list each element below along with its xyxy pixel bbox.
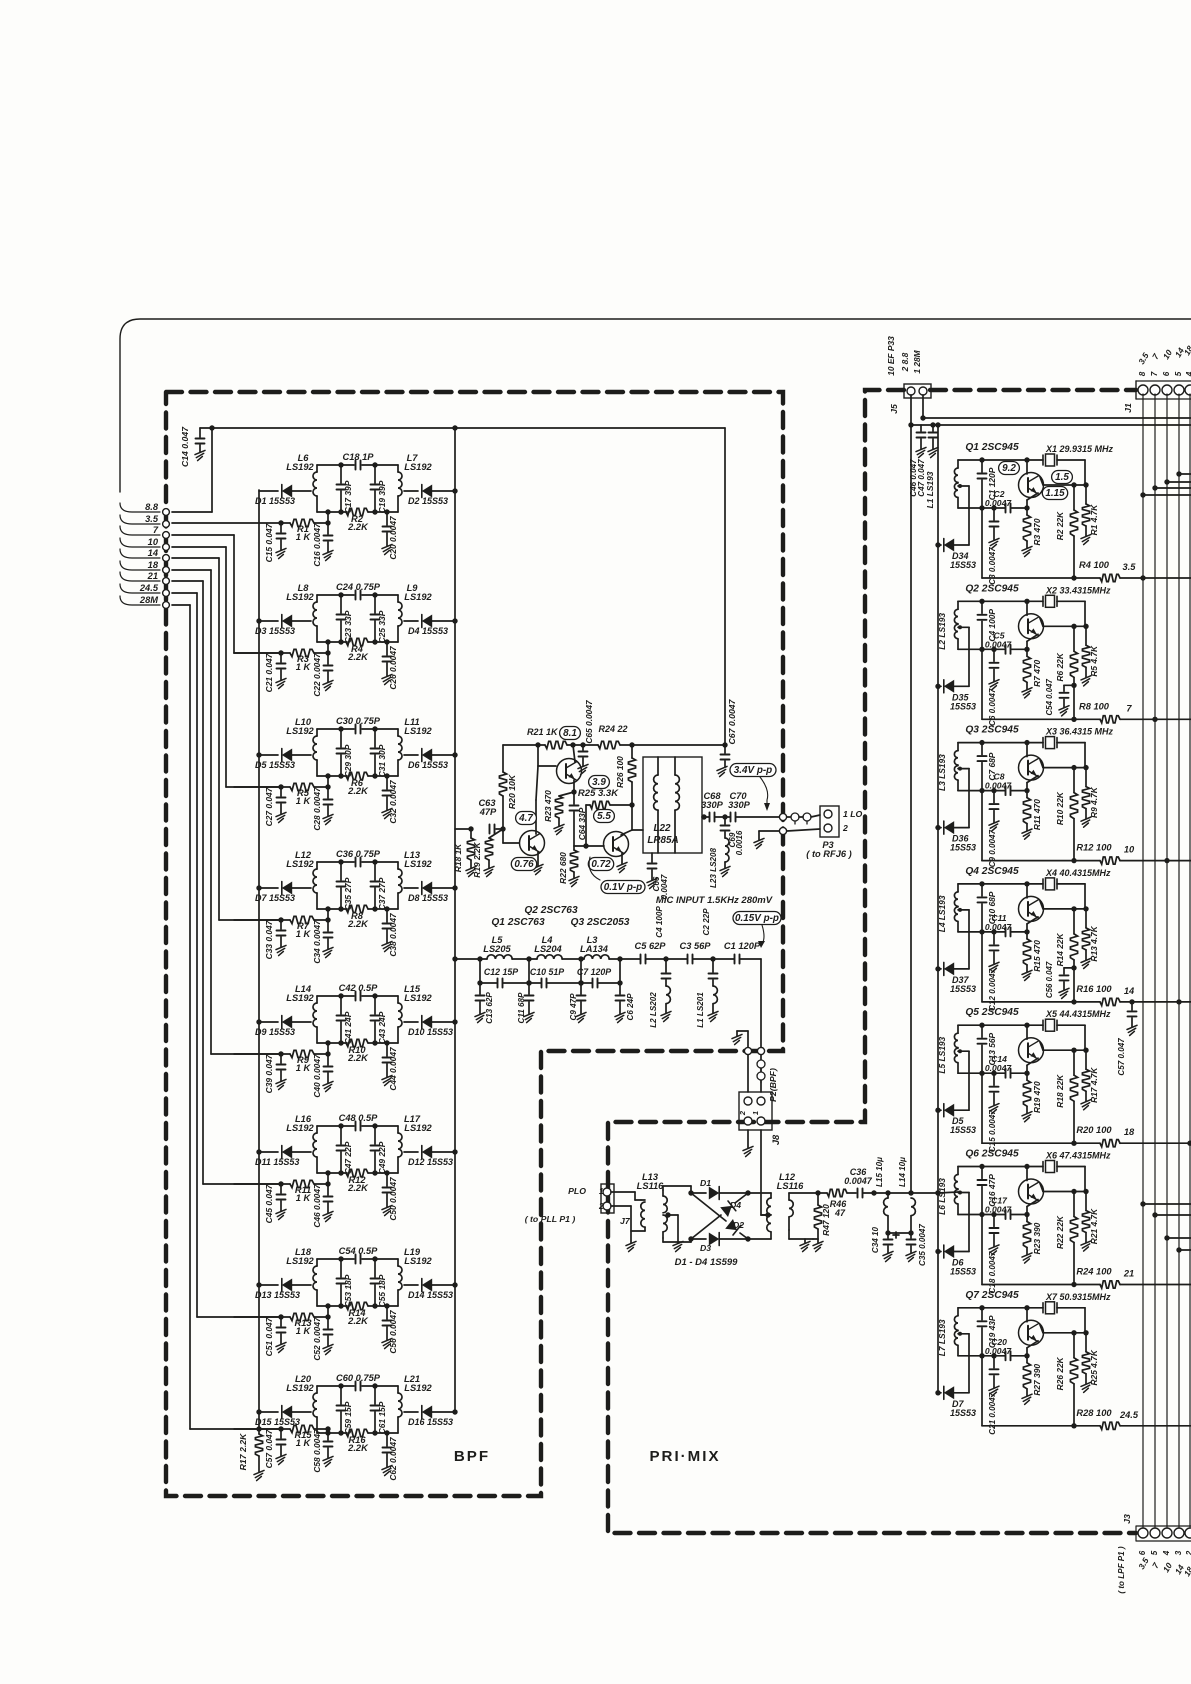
capacitor C4 100P: [978, 601, 998, 649]
BPF unit dashed enclosure: [166, 392, 783, 1496]
svg-text:R28 100: R28 100: [1076, 1408, 1112, 1418]
svg-text:L6 LS193: L6 LS193: [937, 1178, 947, 1215]
svg-text:C52 0.0047: C52 0.0047: [312, 1317, 322, 1361]
wire 8.8 band to C14 node: [172, 425, 215, 512]
wire row7 bottom rail: [317, 1303, 398, 1308]
capacitor C56 0.0047: [382, 1303, 398, 1353]
svg-text:R19 470: R19 470: [1032, 1081, 1042, 1113]
wire row3 bottom rail: [317, 773, 398, 778]
resistor R12 2.2K: [346, 1169, 369, 1193]
svg-text:C57 0.047: C57 0.047: [1117, 1038, 1126, 1076]
svg-text:15S53: 15S53: [950, 701, 976, 711]
svg-text:D2 15S53: D2 15S53: [408, 496, 448, 506]
resistor R24 100: [1076, 1267, 1134, 1289]
diode D35 15S53: [935, 625, 976, 711]
wire stage6 output row: [982, 1215, 1191, 1285]
capacitor C21 0.0047: [988, 1356, 999, 1435]
svg-text:L3 LS193: L3 LS193: [937, 754, 947, 791]
wire row4 top rail: [317, 859, 398, 864]
resistor R17 4.7K: [1081, 1050, 1099, 1110]
connector J3: [1117, 1514, 1191, 1594]
svg-text:0.0047: 0.0047: [985, 639, 1013, 649]
value bubble 3.9: [589, 776, 610, 789]
svg-text:PRI·MIX: PRI·MIX: [649, 1448, 720, 1465]
connector contact pair: [791, 813, 820, 824]
capacitor C70 330P: [715, 791, 780, 822]
svg-text:Q3 2SC2053: Q3 2SC2053: [571, 917, 630, 928]
svg-text:C45 0.047: C45 0.047: [264, 1184, 274, 1223]
capacitor C38 0.0047: [382, 906, 398, 956]
svg-text:2: 2: [738, 1110, 747, 1116]
svg-text:C32 0.0047: C32 0.0047: [388, 780, 398, 824]
inductor L18 LS192: [286, 1247, 317, 1306]
capacitor C25 33P: [371, 595, 388, 643]
svg-text:1 K: 1 K: [296, 1063, 312, 1073]
svg-text:J5: J5: [889, 404, 899, 414]
svg-text:C51 0.047: C51 0.047: [264, 1317, 274, 1356]
capacitor C57 0.047: [264, 1429, 286, 1468]
svg-text:C38 0.0047: C38 0.0047: [388, 913, 398, 957]
svg-text:C31 30P: C31 30P: [377, 744, 387, 777]
svg-text:C34 0.0047: C34 0.0047: [312, 920, 322, 964]
oscillator stage Q3 2SC945 labels: [965, 725, 1113, 737]
resistor R9 4.7K: [1081, 768, 1099, 828]
resistor R3 470: [1022, 508, 1042, 557]
wire J8 pin2 ground: [743, 1130, 753, 1157]
capacitor C16 47P: [978, 1167, 998, 1215]
svg-text:C18 0.0047: C18 0.0047: [988, 1251, 997, 1293]
capacitor C68 330P: [701, 791, 724, 822]
resistor R14 22K: [1055, 909, 1078, 1005]
oscillator stage Q7 2SC945 labels: [965, 1290, 1111, 1302]
wire row1 top rail: [317, 462, 398, 467]
svg-text:LS192: LS192: [286, 726, 314, 736]
svg-text:1.15: 1.15: [1045, 488, 1065, 499]
node bus 18: [1187, 1141, 1191, 1146]
svg-text:LS192: LS192: [404, 1123, 432, 1133]
svg-text:7: 7: [1150, 371, 1159, 376]
svg-text:R24 22: R24 22: [598, 724, 627, 734]
svg-text:LS204: LS204: [534, 944, 562, 954]
resistor R20 10K: [499, 745, 517, 829]
resistor R22 22K: [1055, 1192, 1078, 1288]
wire common output line top: [212, 427, 725, 429]
svg-text:C21 0.047: C21 0.047: [264, 653, 274, 692]
resistor R9 1K: [290, 1050, 314, 1073]
wire 21 band to row 6: [172, 581, 281, 1184]
resistor R20 100: [1076, 1125, 1135, 1147]
svg-text:C22 0.0047: C22 0.0047: [312, 653, 322, 697]
oscillator stage Q5 2SC945 labels: [965, 1007, 1111, 1019]
value bubble 8.1: [560, 727, 581, 740]
svg-text:J7: J7: [620, 1216, 631, 1226]
svg-text:0.0047: 0.0047: [844, 1176, 873, 1186]
capacitor C7 120P: [577, 959, 620, 988]
svg-text:R21 4.7K: R21 4.7K: [1089, 1208, 1099, 1244]
svg-text:C12 0.0047: C12 0.0047: [988, 968, 997, 1010]
capacitor C64 33P: [570, 792, 588, 846]
oscillator stage Q6 2SC945 labels: [965, 1149, 1111, 1161]
svg-text:LS192: LS192: [404, 1256, 432, 1266]
svg-text:D4 15S53: D4 15S53: [408, 626, 448, 636]
svg-text:R2 22K: R2 22K: [1055, 511, 1065, 540]
svg-text:C44 0.0047: C44 0.0047: [388, 1047, 398, 1091]
svg-text:D3 15S53: D3 15S53: [255, 626, 295, 636]
wire mixer output to L6 tap: [938, 1192, 958, 1193]
transistor Q6: [1019, 1167, 1089, 1215]
svg-text:0.15V p-p: 0.15V p-p: [735, 913, 779, 924]
svg-text:L2 LS193: L2 LS193: [937, 613, 947, 650]
svg-text:0.0047: 0.0047: [985, 1063, 1013, 1073]
wire bus stubs to edge middle: [1140, 1201, 1191, 1252]
transformer L22 LR85A: [643, 757, 702, 853]
terminal 24.5: [120, 583, 169, 596]
svg-text:C30 0.75P: C30 0.75P: [336, 716, 381, 726]
svg-text:Q4 2SC945: Q4 2SC945: [965, 866, 1019, 877]
svg-text:C10 51P: C10 51P: [530, 967, 564, 977]
svg-text:1 K: 1 K: [296, 1193, 312, 1203]
transistor Q7: [1019, 1308, 1089, 1356]
svg-text:C56 0.047: C56 0.047: [1045, 961, 1054, 998]
terminal 28M: [120, 595, 169, 608]
capacitor C6 24P: [615, 980, 635, 1022]
diode D2 15S53: [404, 485, 458, 507]
svg-text:4: 4: [1162, 1550, 1171, 1556]
inductor L6 LS192: [286, 453, 317, 512]
diode D15 15S53: [255, 1406, 311, 1428]
svg-text:R5 4.7K: R5 4.7K: [1089, 645, 1099, 677]
diode D8 15S53: [404, 882, 458, 904]
capacitor C54 0.5P: [339, 1246, 379, 1264]
capacitor C20 0.0047: [985, 1337, 1013, 1361]
capacitor C20 0.0047: [382, 509, 398, 559]
svg-text:C6 24P: C6 24P: [626, 993, 635, 1021]
svg-text:15S53: 15S53: [950, 1408, 976, 1418]
svg-text:C14 0.047: C14 0.047: [180, 426, 190, 467]
capacitor C2 0.0047: [985, 489, 1013, 513]
svg-text:8.1: 8.1: [563, 728, 577, 739]
svg-text:330P: 330P: [701, 800, 724, 810]
svg-text:P2(BPF): P2(BPF): [768, 1068, 778, 1102]
terminal 8.8: [120, 502, 169, 515]
capacitor C17 39P: [337, 465, 354, 513]
resistor R23 470: [543, 789, 577, 834]
capacitor C5 0.0047: [985, 630, 1013, 654]
capacitor C18 0.0047: [988, 1215, 999, 1294]
transistor Q1: [1019, 460, 1089, 508]
diode D10 15S53: [404, 1016, 458, 1038]
terminal 14: [120, 548, 169, 561]
inductor L10 LS192: [286, 717, 317, 776]
svg-text:1 28M: 1 28M: [912, 349, 922, 373]
capacitor C56 0.047: [1045, 961, 1077, 998]
capacitor C65 0.0047: [578, 700, 594, 775]
capacitor C61 15P: [371, 1386, 388, 1434]
capacitor C10 51P: [526, 959, 581, 988]
svg-text:C35 0.0047: C35 0.0047: [918, 1224, 927, 1266]
wire stage3 output row: [982, 791, 1191, 861]
svg-text:3: 3: [1174, 1550, 1183, 1555]
resistor R10 2.2K: [346, 1039, 369, 1063]
svg-text:C28 0.0047: C28 0.0047: [312, 787, 322, 831]
capacitor C44 0.0047: [382, 1040, 398, 1090]
capacitor C3 56P: [666, 941, 713, 964]
transistor Q3: [1019, 743, 1089, 791]
capacitor C60 0.75P: [336, 1373, 381, 1391]
svg-text:LS192: LS192: [404, 726, 432, 736]
svg-text:J1: J1: [1123, 403, 1133, 413]
svg-text:15S53: 15S53: [950, 984, 976, 994]
capacitor C10 68P: [978, 884, 998, 932]
node BPF box output: [779, 813, 791, 820]
resistor R13 1K: [290, 1313, 314, 1336]
inductor L20 LS192: [286, 1374, 317, 1433]
node bus 7: [1152, 717, 1157, 722]
wire stage2 output row: [982, 649, 1191, 719]
capacitor C15 0.0047: [988, 1073, 999, 1152]
svg-text:C24 0.75P: C24 0.75P: [336, 582, 381, 592]
diode D37 15S53: [935, 908, 976, 994]
wire stage6 top rail: [958, 1164, 1043, 1169]
svg-text:R22 680: R22 680: [558, 852, 568, 884]
svg-text:0.72: 0.72: [591, 859, 611, 870]
wire row2 top rail: [317, 592, 398, 597]
capacitor C22 0.0047: [312, 653, 333, 697]
oscillator stage Q4 2SC945 labels: [965, 866, 1111, 878]
capacitor C58 0.0047: [312, 1429, 333, 1473]
crystal X6: [1043, 1161, 1085, 1192]
wire J7 pin1 to L13: [611, 1192, 641, 1200]
crystal X2: [1043, 595, 1085, 626]
svg-text:2.2K: 2.2K: [347, 522, 369, 532]
resistor R4 100: [1079, 560, 1136, 582]
svg-text:28M: 28M: [139, 595, 158, 605]
wire L13 secondary taps: [663, 1186, 694, 1252]
wire row1 bottom rail: [317, 509, 398, 514]
svg-text:X5 44.4315MHz: X5 44.4315MHz: [1045, 1009, 1111, 1019]
capacitor C31 30P: [371, 729, 388, 777]
svg-text:LS192: LS192: [286, 1383, 314, 1393]
wire row6 top rail: [317, 1123, 398, 1128]
capacitor C1 120P: [713, 941, 761, 964]
inductor L11 LS192: [398, 717, 433, 776]
svg-text:D12 15S53: D12 15S53: [408, 1157, 453, 1167]
svg-text:L4 LS193: L4 LS193: [937, 895, 947, 932]
capacitor C28 0.0047: [312, 787, 333, 831]
svg-text:D11 15S53: D11 15S53: [255, 1157, 299, 1167]
resistor R18 22K: [1055, 1050, 1078, 1146]
svg-text:D9 15S53: D9 15S53: [255, 1027, 295, 1037]
inductor L23 LS208: [709, 838, 730, 888]
resistor R6 2.2K: [346, 772, 369, 796]
wire J5 pin2 8.8 rail: [908, 395, 1191, 1193]
value bubble 0.15Vp-p: [733, 912, 781, 949]
resistor R26 22K: [1055, 1333, 1078, 1429]
svg-text:21: 21: [147, 571, 158, 581]
svg-text:LS192: LS192: [286, 993, 314, 1003]
wire row7 control line: [234, 1306, 331, 1320]
capacitor C32 0.0047: [382, 773, 398, 823]
node bus 3.5: [1140, 575, 1145, 580]
resistor R19 2.2K: [472, 829, 503, 878]
svg-text:LS192: LS192: [404, 993, 432, 1003]
connector P2 contacts: [748, 1055, 778, 1102]
wire J8 pin1 to mixer: [761, 1130, 768, 1215]
svg-text:C58 0.0047: C58 0.0047: [312, 1429, 322, 1473]
svg-text:R26 100: R26 100: [615, 756, 625, 788]
svg-text:Q3 2SC945: Q3 2SC945: [965, 725, 1019, 736]
capacitor C1 120P: [978, 460, 998, 508]
oscillator stage Q2 2SC945 labels: [965, 583, 1111, 595]
svg-text:D1 15S53: D1 15S53: [255, 496, 295, 506]
capacitor C3 0.0047: [988, 508, 999, 585]
BPF label: [454, 1448, 490, 1465]
svg-text:LS192: LS192: [404, 859, 432, 869]
svg-text:1 K: 1 K: [296, 662, 312, 672]
wire 7 band to row 2: [172, 535, 281, 653]
svg-text:C46 0.0047: C46 0.0047: [312, 1184, 322, 1228]
connector J7 (PLO): [525, 1184, 631, 1226]
wire output return: [754, 827, 820, 848]
svg-text:C65 0.0047: C65 0.0047: [584, 700, 594, 744]
svg-text:2 8.8: 2 8.8: [900, 352, 910, 372]
diode D16 15S53: [404, 1406, 458, 1428]
diode D3 15S53: [255, 615, 311, 637]
capacitor C34 10 electrolytic: [871, 1226, 899, 1261]
svg-text:D7 15S53: D7 15S53: [255, 893, 295, 903]
capacitor C54 0.047: [1045, 678, 1077, 715]
crystal X1: [1043, 454, 1085, 485]
svg-text:C61 15P: C61 15P: [377, 1401, 387, 1434]
resistor R26 100: [615, 745, 636, 805]
value bubble 4.7: [516, 812, 537, 825]
crystal X4: [1043, 878, 1085, 909]
capacitor C16 0.0047: [312, 523, 333, 567]
svg-text:X4 40.4315MHz: X4 40.4315MHz: [1045, 868, 1111, 878]
wire row1 control line: [172, 512, 331, 526]
svg-text:C5 62P: C5 62P: [634, 941, 666, 951]
inductor L9 LS192: [398, 583, 433, 642]
svg-text:L14 10μ: L14 10μ: [898, 1157, 907, 1187]
resistor R16 100: [1076, 984, 1135, 1006]
svg-text:J3: J3: [1122, 1514, 1132, 1524]
capacitor C26 0.0047: [382, 639, 398, 689]
capacitor C33 0.047: [264, 920, 286, 959]
svg-text:R8 100: R8 100: [1079, 701, 1110, 711]
svg-text:R27 390: R27 390: [1032, 1364, 1042, 1396]
capacitor C29 30P: [337, 729, 354, 777]
resistor R24 22: [598, 724, 628, 749]
resistor R2 2.2K: [346, 508, 369, 532]
svg-text:C7 120P: C7 120P: [577, 967, 611, 977]
svg-text:R26 22K: R26 22K: [1055, 1356, 1065, 1390]
svg-text:2: 2: [598, 1202, 604, 1211]
svg-text:R11 470: R11 470: [1032, 799, 1042, 830]
inductor L12 LS192: [286, 850, 317, 909]
svg-text:4: 4: [1185, 371, 1191, 377]
svg-text:1 K: 1 K: [296, 1438, 312, 1448]
wire row8 top rail: [317, 1383, 398, 1388]
svg-text:C15 0.047: C15 0.047: [264, 523, 274, 562]
transformer L13 LS116: [631, 1172, 667, 1238]
svg-text:1: 1: [751, 1111, 760, 1115]
capacitor C62 0.0047: [382, 1430, 398, 1480]
svg-text:47P: 47P: [479, 807, 497, 817]
resistor R8 100: [1079, 701, 1132, 723]
svg-text:C57 0.047: C57 0.047: [264, 1429, 274, 1468]
svg-text:R3 470: R3 470: [1032, 518, 1042, 545]
connector P2 pins on BPF edge: [744, 1047, 764, 1054]
svg-text:R25 4.7K: R25 4.7K: [1089, 1349, 1099, 1385]
svg-text:Q7 2SC945: Q7 2SC945: [965, 1290, 1019, 1301]
inductor L1 LS201: [696, 980, 718, 1028]
resistor R11 1K: [290, 1180, 314, 1203]
wire LPF chain: [452, 956, 715, 961]
inductor L4 LS193: [937, 884, 958, 932]
svg-text:C6 0.0047: C6 0.0047: [988, 688, 997, 726]
svg-text:1: 1: [599, 1187, 604, 1196]
resistor R28 100: [1076, 1408, 1138, 1430]
terminal 18: [120, 560, 169, 573]
svg-text:R12 100: R12 100: [1076, 843, 1112, 853]
capacitor C43 24P: [371, 996, 388, 1044]
svg-text:R15 470: R15 470: [1032, 940, 1042, 972]
inductor L4 LS204: [529, 935, 581, 959]
value bubble 0.72: [588, 858, 613, 871]
capacitor C23 33P: [337, 595, 354, 643]
wire J7 pin2 ground: [611, 1206, 636, 1252]
svg-text:L15 10μ: L15 10μ: [875, 1157, 884, 1187]
resistor R22 680: [558, 846, 579, 887]
inductor L14 LS192: [286, 984, 317, 1043]
svg-text:14: 14: [148, 548, 159, 558]
transistor Q3: [574, 805, 643, 873]
svg-text:L22: L22: [653, 823, 671, 834]
resistor R5 1K: [290, 783, 314, 806]
connector J1: [1123, 344, 1191, 413]
capacitor C18 1P: [342, 452, 374, 470]
svg-text:0.0047: 0.0047: [985, 922, 1013, 932]
transistor Q2: [1019, 601, 1089, 649]
capacitor C12 15P: [480, 959, 529, 988]
svg-text:C27 0.047: C27 0.047: [264, 787, 274, 826]
capacitor C12 0.0047: [988, 932, 999, 1011]
svg-text:R20 100: R20 100: [1076, 1125, 1112, 1135]
svg-text:24.5: 24.5: [139, 583, 159, 593]
svg-text:0.0047: 0.0047: [985, 498, 1013, 508]
resistor R3 1K: [290, 649, 314, 672]
inductor L5 LS205: [480, 935, 529, 959]
svg-text:15S53: 15S53: [950, 560, 976, 570]
wire row6 control line: [234, 1173, 331, 1187]
svg-text:C1 120P: C1 120P: [724, 941, 761, 951]
svg-text:D13 15S53: D13 15S53: [255, 1290, 300, 1300]
svg-text:R24 100: R24 100: [1076, 1267, 1112, 1277]
svg-text:C40 0.0047: C40 0.0047: [312, 1054, 322, 1098]
capacitor C24 0.75P: [336, 582, 381, 600]
svg-text:0.0047: 0.0047: [985, 1205, 1013, 1215]
svg-text:C33 0.047: C33 0.047: [264, 920, 274, 959]
svg-text:C39 0.047: C39 0.047: [264, 1054, 274, 1093]
wire stage2 top rail: [958, 599, 1043, 604]
svg-text:2.2K: 2.2K: [347, 1183, 369, 1193]
svg-text:LS116: LS116: [637, 1181, 665, 1191]
svg-text:X1 29.9315 MHz: X1 29.9315 MHz: [1045, 444, 1114, 454]
resistor R27 390: [1022, 1356, 1042, 1405]
inductor L15 LS192: [398, 984, 433, 1043]
capacitor C11 68P: [517, 980, 534, 1023]
wire stage5 output row: [982, 1073, 1191, 1143]
